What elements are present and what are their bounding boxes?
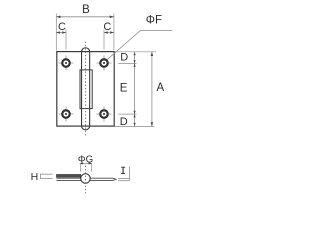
svg-text:B: B (82, 4, 90, 16)
side view: right leaf (edge-on, tapered end) (90, 178, 116, 180)
leader line from ΦF to top-right hole (107, 30, 172, 59)
hinge leaf outline (front view) (57, 52, 114, 127)
screw hole top-left (59, 56, 74, 71)
dimension B (overall width) (56, 14, 114, 51)
side view: right leaf lower surface left of pin (56, 179, 81, 181)
svg-text:D: D (120, 116, 128, 128)
svg-text:C: C (58, 21, 66, 33)
svg-text:D: D (120, 51, 128, 63)
side view: pin circle (81, 174, 91, 184)
dimension C left (edge to hole center) (56, 30, 66, 50)
pin center line (side view) (85, 166, 87, 195)
middle knuckle segment (80, 70, 92, 109)
screw hole bottom-right (97, 107, 112, 122)
screw hole top-right (97, 56, 112, 71)
dimension D/E/D chain line (118, 52, 136, 127)
label I (right leaf thickness, serif glyph) (121, 167, 125, 173)
svg-text:A: A (156, 82, 164, 94)
svg-text:ΦF: ΦF (146, 15, 162, 27)
screw hole bottom-left (59, 107, 74, 122)
svg-text:H: H (31, 171, 39, 183)
dimension C right (hole center to edge) (104, 30, 114, 50)
dimension I bracket (118, 167, 129, 181)
side view: left leaf (edge-on, dark band) (56, 174, 80, 177)
side view: right leaf upper surface left of pin (56, 177, 81, 179)
dimension ΦG (80, 162, 92, 172)
svg-text:C: C (103, 21, 111, 33)
dimension A (overall height) (115, 52, 157, 127)
svg-text:E: E (120, 82, 128, 94)
pin center line (front view) (85, 42, 87, 136)
knuckle barrel with end caps (82, 48, 90, 130)
dimension H bracket (41, 174, 53, 180)
